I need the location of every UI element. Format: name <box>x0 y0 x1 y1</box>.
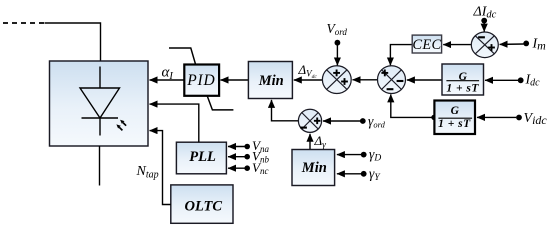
node V_na dot <box>244 144 250 150</box>
wire gamma junction to Min bottom <box>272 100 299 121</box>
svg-text:ΔVdc: ΔVdc <box>298 62 318 80</box>
svg-text:αI: αI <box>162 64 174 82</box>
wire G2 to S2 bottom <box>391 94 434 117</box>
svg-text:CEC: CEC <box>412 37 441 53</box>
svg-text:PID: PID <box>186 72 215 89</box>
svg-text:Ntap: Ntap <box>136 164 159 181</box>
thyristor trigger arrow 2 <box>120 120 126 126</box>
wire V_nc to PLL <box>228 167 245 169</box>
node V_nb dot <box>244 154 250 160</box>
node Delta I_dc dot <box>481 18 487 24</box>
wire OLTC to converter (N_tap) <box>150 131 171 205</box>
wire PLL to converter <box>150 104 199 142</box>
wire V_ord to S1 <box>336 45 338 65</box>
wire Min to PID <box>221 79 249 81</box>
thyristor trigger arrow 1 <box>116 124 122 130</box>
wire Min lower to S4 <box>309 134 311 150</box>
block OLTC <box>171 185 233 223</box>
svg-text:Min: Min <box>258 73 284 89</box>
wire V_na to PLL <box>228 146 245 148</box>
svg-text:ΔIdc: ΔIdc <box>473 5 497 21</box>
summing junction S4 gamma <box>298 109 321 132</box>
block PID <box>184 65 219 96</box>
wire S2 to S1 <box>353 79 378 81</box>
wire CEC to S2 <box>390 45 412 66</box>
thyristor cathode bar <box>82 117 119 119</box>
node I_m dot <box>523 41 529 47</box>
wire V_idc to G2 <box>477 116 516 118</box>
wire AC feeder to converter <box>45 23 101 61</box>
svg-text:G: G <box>451 105 460 117</box>
svg-text:γY: γY <box>369 166 381 183</box>
wire I_m to S3 <box>500 43 524 45</box>
block Min lower <box>292 150 335 186</box>
wire G1 to S2 <box>407 79 442 81</box>
node V_ord dot <box>335 40 341 46</box>
wire V_nb to PLL <box>228 156 245 158</box>
node V_idc dot <box>516 115 522 121</box>
node gamma_ord dot <box>360 118 366 124</box>
svg-text:1 + sT: 1 + sT <box>438 118 471 130</box>
svg-text:Vord: Vord <box>327 21 348 37</box>
svg-text:G: G <box>459 71 468 83</box>
wire I_dc to G1 <box>485 79 518 81</box>
node V_nc dot <box>244 165 250 171</box>
wire gamma_Y to Min lower <box>337 173 361 175</box>
S1 plus sign right <box>341 78 348 85</box>
converter valve block <box>50 61 149 146</box>
wire DC stub below converter <box>99 146 101 186</box>
svg-text:γD: γD <box>369 147 381 164</box>
block Min upper <box>248 62 292 99</box>
block PLL <box>176 142 226 174</box>
G2 fraction bar <box>438 117 472 119</box>
node gamma_Y dot <box>361 171 367 177</box>
S4 minus sign bottom-left <box>300 127 307 129</box>
svg-text:Vidc: Vidc <box>524 111 548 127</box>
svg-text:Im: Im <box>532 37 547 53</box>
S2 plus sign top-left <box>381 70 388 77</box>
S2 minus sign bottom <box>387 88 394 90</box>
S2 minus sign right <box>397 80 404 82</box>
wire summing junction S1 to Min <box>294 79 323 81</box>
wire gamma_ord to S4 <box>323 120 360 122</box>
svg-text:Idc: Idc <box>525 73 541 89</box>
svg-text:Δγ: Δγ <box>314 133 327 151</box>
wire gamma_D to Min lower <box>337 154 361 156</box>
wire S3 to CEC <box>443 44 471 46</box>
node G2 output dot <box>431 115 436 120</box>
svg-text:γord: γord <box>368 113 386 129</box>
svg-text:Min: Min <box>301 160 327 176</box>
summing junction S3 <box>471 32 498 58</box>
thyristor cathode wire <box>99 118 101 136</box>
S3 plus sign bottom-right <box>488 44 495 51</box>
svg-text:1 + sT: 1 + sT <box>446 82 479 94</box>
G1 fraction bar <box>446 80 479 82</box>
node gamma_D dot <box>361 152 367 158</box>
thyristor triangle <box>80 88 120 118</box>
summing junction S1 <box>322 66 351 94</box>
S4 plus sign right <box>314 118 321 125</box>
PID upper limit mark <box>169 48 196 65</box>
block G2 transfer function <box>434 101 475 135</box>
PID lower limit mark <box>207 96 233 110</box>
wire PID to converter (alpha order) <box>150 79 185 81</box>
block G1 transfer function <box>442 64 484 95</box>
svg-text:PLL: PLL <box>189 149 216 165</box>
S3 minus sign top <box>478 36 485 38</box>
summing junction S2 <box>378 66 406 94</box>
thyristor anode wire <box>99 67 101 89</box>
wire dashed AC feeder <box>3 22 45 24</box>
node I_dc dot <box>518 77 524 83</box>
wire Delta I_dc to S3 <box>483 23 485 32</box>
S1 plus sign top <box>333 70 340 77</box>
block CEC <box>412 35 441 53</box>
svg-text:OLTC: OLTC <box>184 199 222 215</box>
